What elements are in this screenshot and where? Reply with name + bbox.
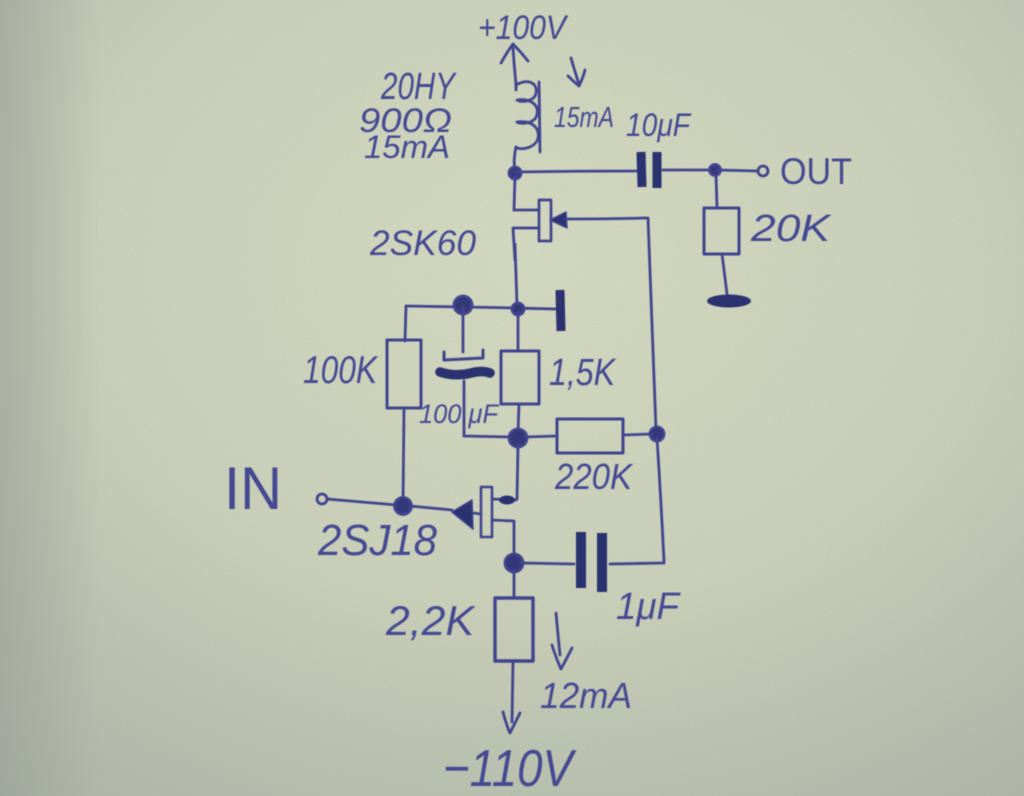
wire: junction to 220K — [525, 436, 557, 437]
svg-text:10μF: 10μF — [626, 107, 692, 143]
wire: right rail (gate feedback) — [648, 218, 656, 430]
wire: 220K junction down to Q2 drain — [517, 445, 518, 499]
source rail — [406, 306, 556, 309]
resistor R2 1.5K — [501, 351, 539, 404]
svg-text:−110V: −110V — [443, 740, 577, 796]
wire: right rail to cap — [610, 563, 664, 564]
OUT terminal — [758, 166, 768, 176]
svg-text:+100V: +100V — [478, 9, 569, 47]
wire: right rail to 1uF — [657, 438, 664, 561]
ground — [707, 295, 751, 308]
capacitor C1 10uF — [641, 152, 657, 188]
transistor Q1 2SK60 — [513, 176, 647, 260]
node: 220K left junction — [509, 429, 527, 447]
svg-text:2SJ18: 2SJ18 — [317, 516, 437, 565]
capacitor C2 100uF — [440, 307, 512, 437]
IN terminal — [317, 494, 327, 504]
node: OUT junction — [710, 165, 721, 176]
svg-text:20K: 20K — [750, 208, 832, 250]
resistor R3 220K — [557, 419, 623, 453]
svg-text:15mA: 15mA — [554, 102, 614, 134]
current arrow 12mA — [552, 613, 572, 669]
wire: 1.5K to 220K junction — [518, 404, 519, 433]
wire: source junction to 2.2K — [513, 570, 516, 598]
wire: junction to 10uF — [515, 171, 636, 172]
node: IN/100K junction — [395, 498, 412, 515]
node: source junction — [505, 554, 523, 572]
wire: rail junction to 1.5K — [517, 312, 520, 351]
svg-text:1,5K: 1,5K — [549, 352, 616, 394]
wire: Q1 source down to rail — [515, 244, 517, 306]
+100V supply arrow — [501, 44, 528, 84]
resistor R1 100K — [387, 340, 421, 408]
wire: 220K to right rail — [623, 434, 652, 435]
node: source rail junction — [512, 303, 524, 315]
wire: 20K to ground — [722, 254, 727, 294]
svg-text:2SK60: 2SK60 — [369, 224, 477, 263]
wire+arrow: 2.2K down to -110V — [503, 661, 520, 733]
node: 100uF top junction — [454, 296, 472, 314]
wire: junction to Q2 gate — [410, 506, 452, 510]
wire: rail down to 100K — [405, 306, 406, 341]
resistor R5 2.2K — [495, 598, 533, 661]
svg-text:100 μF: 100 μF — [419, 399, 499, 429]
node: drain junction — [509, 167, 521, 179]
resistor R4 20K — [704, 208, 739, 254]
inductor value label 20HY 900ohm 15mA — [359, 66, 457, 165]
wire: junction to OUT terminal — [718, 170, 757, 171]
wire: 10uF to OUT — [663, 169, 710, 172]
rail end bar — [560, 290, 561, 331]
svg-text:12mA: 12mA — [540, 675, 632, 716]
svg-text:220K: 220K — [554, 456, 634, 497]
svg-text:100K: 100K — [303, 349, 379, 392]
transistor Q2 2SJ18 — [452, 487, 516, 556]
svg-text:1μF: 1μF — [616, 586, 681, 628]
current arrow 15mA (down) — [568, 58, 585, 86]
svg-text:IN: IN — [224, 455, 282, 522]
wire: junction to 1uF — [521, 563, 574, 564]
svg-text:15mA: 15mA — [364, 129, 450, 165]
wire: 100K down to IN node — [403, 408, 404, 505]
wire: OUT junction down to 20K — [716, 175, 717, 207]
inductor L1 (choke) — [514, 82, 540, 172]
wire: IN to gate — [327, 499, 397, 505]
node: 220K right junction — [650, 427, 664, 441]
svg-text:2,2K: 2,2K — [385, 597, 476, 644]
svg-text:OUT: OUT — [780, 151, 852, 192]
capacitor C3 1uF — [581, 532, 602, 592]
